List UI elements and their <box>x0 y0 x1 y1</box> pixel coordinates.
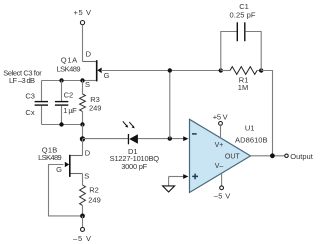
wire Q1A source rail <box>42 80 96 82</box>
wire op-amp output <box>251 155 285 157</box>
node R1/C1 right junction <box>259 68 263 72</box>
svg-text:LSK489: LSK489 <box>57 65 81 74</box>
node output junction <box>270 153 275 158</box>
+5 V supply terminal (op-amp V+) <box>213 112 228 138</box>
svg-text:249: 249 <box>89 104 102 113</box>
node summing junction (big dot) <box>80 136 85 141</box>
svg-text:+5 V: +5 V <box>74 8 92 17</box>
svg-text:V+: V+ <box>215 142 224 149</box>
arrowhead into non-inverting input <box>183 174 188 179</box>
svg-text:LSK489: LSK489 <box>38 153 62 162</box>
wire summing node down to Q1B drain <box>82 139 84 156</box>
node R1/C1 left junction <box>219 68 223 72</box>
svg-text:0.25 pF: 0.25 pF <box>230 10 256 19</box>
svg-text:1M: 1M <box>238 83 248 92</box>
node R2/gate/-5V junction <box>80 214 85 219</box>
node source/C2 junction <box>59 78 63 82</box>
op-amp U1 AD8610B <box>190 119 251 192</box>
-5 V supply terminal (op-amp V-) <box>214 173 231 200</box>
wire ground to non-inverting input <box>169 176 184 178</box>
resistor R1 1M <box>221 67 261 75</box>
capacitor C3 / Cx <box>35 81 48 125</box>
resistor R2 249 <box>80 174 86 216</box>
svg-text:U1: U1 <box>245 124 255 133</box>
node source/R3 junction <box>80 78 84 82</box>
node gate/feedback junction <box>168 68 172 72</box>
svg-text:249: 249 <box>88 195 101 204</box>
resistor R3 249 <box>80 81 86 125</box>
transistor Q1A LSK489 (N-JFET) <box>83 60 102 81</box>
svg-text:–5 V: –5 V <box>73 234 91 243</box>
wire +5V down to Q1A drain <box>82 25 84 62</box>
svg-text:R2: R2 <box>89 186 99 195</box>
ground (non-inverting input) <box>163 177 175 193</box>
svg-text:S: S <box>85 80 90 89</box>
wire feedback to output node <box>261 71 272 156</box>
svg-text:–5 V: –5 V <box>214 191 231 200</box>
wire photodiode to inverting input <box>138 138 184 140</box>
svg-text:C3: C3 <box>25 91 35 100</box>
svg-text:LF –3 dB: LF –3 dB <box>9 76 35 85</box>
output terminal <box>285 152 314 161</box>
node R3/bottom rail junction <box>80 122 84 126</box>
svg-text:1 µF: 1 µF <box>63 106 77 115</box>
svg-text:D: D <box>85 149 91 158</box>
wire Q1A gate / feedback top line <box>101 70 221 72</box>
svg-text:Q1A: Q1A <box>61 56 77 65</box>
wire Q1B gate to -5V rail <box>49 165 81 216</box>
svg-text:+5 V: +5 V <box>213 112 228 121</box>
svg-text:D: D <box>86 50 92 59</box>
svg-text:G: G <box>104 71 110 80</box>
svg-text:Cx: Cx <box>25 108 34 117</box>
transistor Q1B LSK489 (N-JFET) <box>65 155 83 177</box>
svg-text:3000 pF: 3000 pF <box>121 162 147 171</box>
node feedback/inverting-input junction <box>168 136 172 140</box>
node C2/bottom rail junction <box>59 122 63 126</box>
svg-text:C2: C2 <box>64 90 74 99</box>
svg-text:OUT: OUT <box>225 153 241 160</box>
capacitor C1 0.25 pF <box>221 22 261 70</box>
wire summing node to photodiode <box>83 138 129 140</box>
wire rail down to summing node <box>82 125 84 140</box>
arrowhead into inverting input <box>183 136 188 141</box>
svg-text:Output: Output <box>290 152 313 161</box>
svg-text:S: S <box>84 172 89 181</box>
capacitor C2 1uF <box>55 81 68 125</box>
photodiode D1 S1227-1010BQ <box>123 121 138 144</box>
-5 V supply terminal (bottom) <box>73 216 91 243</box>
+5 V supply terminal (top left) <box>74 8 92 25</box>
svg-text:G: G <box>56 165 62 174</box>
wire feedback vertical <box>169 71 171 139</box>
svg-text:V–: V– <box>215 163 224 170</box>
svg-text:AD8610B: AD8610B <box>235 136 267 145</box>
wire bottom rail of source network <box>42 124 83 126</box>
